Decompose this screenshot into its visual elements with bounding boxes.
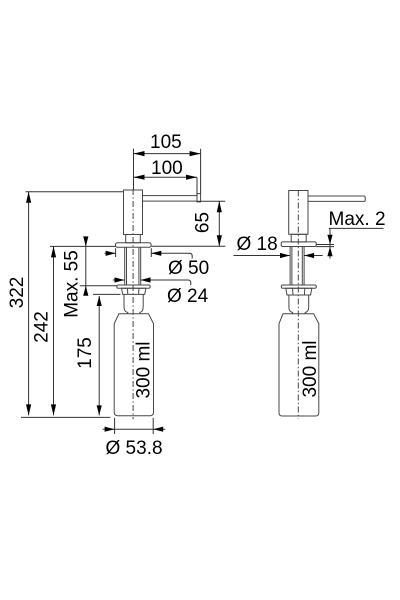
dimension 175 [93, 294, 121, 415]
svg-text:300 ml: 300 ml [133, 341, 154, 398]
svg-text:Max. 2: Max. 2 [329, 209, 386, 230]
pump neck (front view) [126, 235, 141, 243]
bottle with shoulder (side view) [279, 314, 319, 416]
bottle with shoulder (front view) [114, 314, 153, 416]
label Max. 2 [329, 209, 386, 230]
svg-text:300 ml: 300 ml [300, 340, 321, 397]
svg-text:65: 65 [192, 212, 213, 233]
label 242 [32, 311, 53, 343]
dimension 242 [50, 246, 116, 415]
dimension diameter 53.8 [103, 418, 166, 434]
spout arm (front view) [143, 196, 198, 202]
pump head body (front view) [124, 190, 143, 235]
lower flange (front view) [117, 285, 150, 288]
svg-text:Max. 55: Max. 55 [62, 250, 83, 318]
label 105 [150, 132, 182, 153]
dimension Max. 55 [80, 236, 117, 295]
pump housing (side view) [289, 295, 309, 314]
label 322 [7, 277, 28, 309]
label 300 ml side bottle [300, 340, 321, 397]
centerline (front view) [132, 189, 134, 419]
pump housing (front view) [124, 294, 143, 313]
label 300 ml front bottle [133, 341, 154, 398]
dimension diameter 50 [105, 248, 193, 258]
label diameter 18 [237, 234, 278, 255]
svg-text:Ø 53.8: Ø 53.8 [106, 438, 163, 459]
svg-text:100: 100 [151, 158, 183, 179]
label 175 [75, 337, 96, 369]
dimension diameter 18 [234, 253, 323, 258]
svg-text:175: 175 [75, 337, 96, 369]
dimension 100 [134, 175, 198, 180]
svg-text:242: 242 [32, 311, 53, 343]
label diameter 24 [167, 286, 209, 307]
pump neck (side view) [291, 234, 306, 242]
label 65 [192, 212, 213, 233]
label diameter 50 [168, 258, 209, 279]
svg-text:Ø 18: Ø 18 [237, 234, 278, 255]
dimension 322 [21, 192, 123, 418]
dimension diameter 24 [113, 277, 191, 285]
dimension Max. 2 leader [316, 228, 383, 258]
spout arm (side view) [308, 196, 365, 201]
threaded tube (side view) [290, 247, 304, 286]
svg-text:Ø 24: Ø 24 [167, 286, 209, 307]
label diameter 53.8 [106, 438, 163, 459]
deck flange collar (side view) [281, 242, 316, 247]
centerline (side view) [297, 191, 299, 420]
mounting nut (front view) [122, 288, 146, 294]
label 100 [151, 158, 183, 179]
pump head body (side view) [289, 191, 308, 235]
mounting nut (side view) [286, 288, 312, 295]
svg-text:Ø 50: Ø 50 [168, 258, 209, 279]
dimension 105 [134, 151, 201, 156]
dimension 65 [152, 201, 226, 246]
svg-text:105: 105 [150, 132, 182, 153]
spout end cap (front view) [197, 194, 201, 202]
extension lines top [134, 149, 201, 196]
threaded tube (front view) [125, 247, 141, 285]
lower flange (side view) [281, 285, 316, 288]
label Max. 55 [62, 250, 83, 318]
deck flange collar (front view) [116, 243, 152, 248]
svg-text:322: 322 [7, 277, 28, 309]
